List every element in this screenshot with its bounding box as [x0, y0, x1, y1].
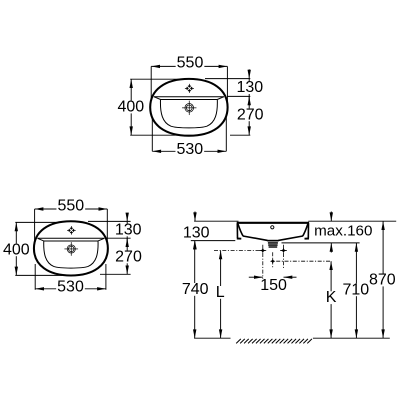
svg-text:130: 130: [115, 221, 142, 238]
svg-text:530: 530: [57, 279, 84, 296]
svg-text:K: K: [326, 289, 337, 306]
svg-text:270: 270: [237, 106, 264, 123]
svg-text:550: 550: [57, 198, 84, 215]
svg-text:max.160: max.160: [314, 222, 372, 239]
svg-text:710: 710: [342, 281, 369, 298]
svg-text:530: 530: [176, 141, 203, 158]
svg-text:870: 870: [369, 272, 396, 289]
svg-text:550: 550: [177, 55, 204, 72]
svg-text:150: 150: [260, 277, 287, 294]
svg-text:400: 400: [3, 241, 30, 258]
svg-text:130: 130: [183, 224, 210, 241]
svg-text:130: 130: [236, 79, 263, 96]
svg-text:400: 400: [117, 99, 144, 116]
svg-text:270: 270: [115, 248, 142, 265]
svg-text:740: 740: [182, 281, 209, 298]
svg-text:L: L: [216, 284, 225, 301]
